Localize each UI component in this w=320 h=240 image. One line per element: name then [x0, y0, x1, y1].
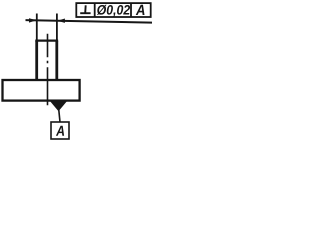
dimension / leader line [26, 20, 153, 23]
datum box [51, 122, 69, 139]
datum triangle (filled) [50, 101, 67, 111]
feature control frame outer box [76, 3, 150, 17]
left extension line [36, 14, 38, 41]
datum reference letter A in frame [136, 5, 145, 15]
centerline (dash-dot) [47, 34, 49, 105]
tolerance value text Ø0,02 [97, 5, 130, 17]
right arrowhead [57, 19, 65, 23]
frame divider 2 [130, 3, 132, 17]
base plate outline [3, 80, 80, 101]
left arrowhead [29, 18, 37, 22]
perpendicularity symbol [80, 5, 90, 13]
frame divider 1 [94, 3, 96, 17]
datum connector line [59, 110, 60, 122]
pin top edge [35, 39, 58, 41]
pin right wall [55, 41, 58, 80]
pin left wall [35, 41, 38, 80]
right extension line [56, 14, 58, 41]
datum letter A [56, 126, 64, 136]
